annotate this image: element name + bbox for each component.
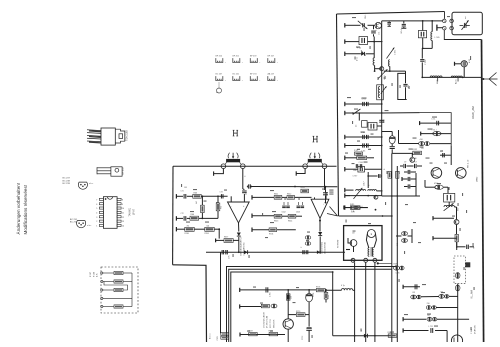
terminal stub9 <box>176 194 183 198</box>
resistor R-d <box>114 305 123 308</box>
svg-text:TDA 2160: TDA 2160 <box>126 130 129 141</box>
resistor R96 <box>269 331 278 336</box>
svg-text:BC 239: BC 239 <box>63 183 71 185</box>
label H1 <box>233 130 238 136</box>
capacitor C66 <box>353 164 362 172</box>
wire AM antenna rail <box>421 77 481 79</box>
capacitor C90 <box>266 287 272 297</box>
terminal stub12 <box>345 188 354 192</box>
wire right border <box>482 40 484 343</box>
text disclaimer <box>15 183 28 235</box>
terminal stub19 <box>403 328 447 342</box>
wire from Fi2 down <box>324 169 326 191</box>
terminal e <box>101 305 114 307</box>
trimmer C051 <box>387 48 397 72</box>
label FM transistors <box>468 159 470 168</box>
svg-text:R612: R612 <box>287 194 291 196</box>
wire lower left border <box>172 166 174 265</box>
capacitor C612 <box>282 202 290 214</box>
wire right rail196 <box>382 195 420 197</box>
svg-text:4k7: 4k7 <box>196 201 198 204</box>
resistor R63 <box>193 192 201 198</box>
transistor FM1 <box>431 168 442 179</box>
label KL AM <box>470 290 473 298</box>
svg-text:R 108: R 108 <box>94 272 96 277</box>
transistor GB2 <box>375 67 384 71</box>
component value labels (illegible) <box>181 16 475 338</box>
capacitor C-fm4 <box>400 162 422 169</box>
capacitor C185 <box>397 232 408 246</box>
svg-text:14: 14 <box>122 226 124 228</box>
wire mid rail <box>345 195 382 197</box>
svg-text:C9: C9 <box>404 162 406 164</box>
bus wires right <box>391 153 398 342</box>
labels T2 <box>70 219 92 227</box>
wire opamp1 out <box>238 223 240 232</box>
svg-text:AA 119: AA 119 <box>268 73 275 76</box>
transistor in module <box>346 233 357 253</box>
svg-text:C65: C65 <box>395 137 397 140</box>
svg-text:Änderungen vorbehalten!: Änderungen vorbehalten! <box>15 183 21 235</box>
svg-text:2 7k: 2 7k <box>351 211 355 213</box>
inductor L22 <box>368 190 383 200</box>
label C82 block <box>329 190 333 195</box>
stub under Fi2 <box>296 169 305 176</box>
diode D71 <box>237 233 241 254</box>
svg-text:TAA 661: TAA 661 <box>129 207 132 216</box>
resistor R-b <box>114 280 123 283</box>
terminal stub6 <box>345 135 382 139</box>
IC package TO-220 side view <box>87 128 125 145</box>
capacitor C64 <box>361 132 368 139</box>
lamp D60 <box>455 58 472 77</box>
svg-text:C72: C72 <box>181 213 184 215</box>
svg-text:R677: R677 <box>224 237 228 239</box>
svg-text:C612: C612 <box>282 212 286 214</box>
capacitor C180 <box>402 177 416 181</box>
pinout dotted line <box>216 82 222 94</box>
terminal stub2 <box>345 39 359 43</box>
terminal stub u2a <box>252 195 274 199</box>
svg-text:R704: R704 <box>269 234 273 236</box>
terminal stub u2c <box>252 228 269 232</box>
svg-text:d6: d6 <box>415 158 417 160</box>
transistor GM2 <box>392 153 415 162</box>
resistor R719 <box>324 290 330 303</box>
capacitor Cr3 <box>465 262 470 267</box>
wire bottom rail <box>332 271 392 337</box>
wire d <box>101 297 132 299</box>
svg-text:C94: C94 <box>291 296 293 299</box>
filter QF1 <box>368 123 382 131</box>
capacitor C72 <box>181 213 191 221</box>
transistor right big <box>451 335 462 346</box>
wire demod rail <box>206 251 345 253</box>
svg-text:R719: R719 <box>328 295 330 299</box>
svg-text:ZF 460 kHz AB: ZF 460 kHz AB <box>266 315 269 328</box>
box antenna input <box>452 12 482 34</box>
svg-text:BF 167: BF 167 <box>268 56 275 58</box>
capacitor C-oscout <box>403 84 410 99</box>
terminal stub16 <box>433 236 457 240</box>
svg-text:MISCHER: MISCHER <box>274 319 276 328</box>
resistor Rbus1 <box>384 168 391 178</box>
svg-text:#53: #53 <box>412 292 415 294</box>
resistor R136 <box>185 225 195 235</box>
svg-text:716: 716 <box>187 225 190 227</box>
capacitor C181 <box>404 184 416 188</box>
svg-text:C 506: C 506 <box>425 59 427 65</box>
svg-text:ST POST: ST POST <box>338 239 340 248</box>
svg-text:ZF AM 460: ZF AM 460 <box>474 325 477 334</box>
svg-text:R66: R66 <box>191 214 194 216</box>
svg-text:LP A7: LP A7 <box>133 208 136 215</box>
svg-text:C 917: C 917 <box>353 176 358 178</box>
svg-text:R65: R65 <box>221 206 223 209</box>
wire right185 <box>396 229 412 243</box>
label demodulator <box>240 236 246 256</box>
IF transformer Fi1 <box>221 153 245 169</box>
wire right main v <box>457 284 459 343</box>
svg-text:R 107: R 107 <box>90 272 92 277</box>
resistor R-bot <box>386 332 397 337</box>
wires dashed box <box>104 273 132 307</box>
resistor R90 <box>261 304 277 308</box>
capacitor C80 <box>247 184 250 188</box>
component stack bottom-left <box>217 333 229 341</box>
svg-text:BC 251: BC 251 <box>233 74 241 76</box>
svg-text:R615: R615 <box>301 187 305 189</box>
label H2 <box>313 136 318 142</box>
capacitor Cr2 <box>457 242 476 250</box>
wire y216 <box>339 215 392 217</box>
svg-text:C706: C706 <box>313 293 315 297</box>
resistor R185 <box>394 264 405 275</box>
resistor R95 <box>249 331 258 336</box>
svg-text:C917: C917 <box>364 181 366 186</box>
svg-text:BF 451: BF 451 <box>233 56 240 58</box>
IF transformer Fi2 <box>303 153 327 169</box>
electrolytic C706 <box>306 290 315 302</box>
resistor R65 <box>216 196 222 218</box>
terminal stub7 <box>345 143 382 147</box>
svg-text:BC 252: BC 252 <box>70 222 78 224</box>
svg-text:R713: R713 <box>296 311 300 313</box>
wire module border corner <box>173 265 207 342</box>
svg-text:8: 8 <box>122 200 123 202</box>
oval r1 <box>455 273 460 279</box>
wire top feed <box>382 20 443 22</box>
svg-text:R611: R611 <box>274 194 278 196</box>
inductor L503 <box>430 76 442 84</box>
terminal stub15 <box>433 216 454 220</box>
resistor R64 <box>196 196 204 218</box>
svg-text:11: 11 <box>122 213 124 215</box>
filter F2 <box>353 166 382 177</box>
svg-text:BC 238: BC 238 <box>63 180 71 182</box>
inductor L705 <box>341 285 355 290</box>
capacitor C-top <box>401 21 406 34</box>
diode D-bot <box>361 330 368 338</box>
dashed box <box>101 267 138 313</box>
svg-text:604: 604 <box>207 225 210 227</box>
svg-text:R144: R144 <box>357 154 362 156</box>
svg-text:R613: R613 <box>274 221 278 223</box>
wire row1 <box>201 195 227 197</box>
resistor Rbus2 <box>396 171 401 178</box>
svg-text:C61: C61 <box>184 187 187 189</box>
wire bc2 <box>240 304 262 308</box>
svg-text:R705: R705 <box>316 286 320 288</box>
electrolytic C-bot <box>302 328 312 342</box>
svg-text:1n5: 1n5 <box>378 32 380 35</box>
svg-text:C710/OSZILLATOR: C710/OSZILLATOR <box>263 311 266 328</box>
resistor R704 <box>269 228 296 236</box>
wire IF rail <box>173 165 337 167</box>
svg-text:4,7k: 4,7k <box>97 273 99 277</box>
transistor GB90 <box>283 319 293 329</box>
op-amp U2 <box>311 192 338 218</box>
capacitor C63 <box>379 120 385 123</box>
svg-text:C71: C71 <box>181 191 184 193</box>
wire right border upper <box>444 30 481 40</box>
terminal b <box>101 280 114 282</box>
capacitor C-179 <box>368 174 382 178</box>
capacitor C82 <box>323 187 328 204</box>
capacitor C-fm1 <box>420 119 452 126</box>
label block osc <box>263 311 276 328</box>
transistor package with tab <box>97 167 122 176</box>
svg-text:84 d: 84 d <box>401 30 403 34</box>
svg-text:ant: ant <box>464 16 467 19</box>
resistor R51 <box>354 150 363 155</box>
wire to Q osc <box>368 24 375 26</box>
wire C-bot up <box>308 315 310 327</box>
wire bias <box>214 228 220 238</box>
label package2 <box>123 167 125 175</box>
diode D76 <box>244 250 248 254</box>
svg-text:C185: C185 <box>396 273 400 275</box>
capacitor C613 <box>296 202 304 214</box>
wire top border <box>337 12 445 15</box>
connector circles <box>443 19 454 30</box>
svg-text:9: 9 <box>122 204 123 206</box>
svg-text:C75: C75 <box>229 256 231 259</box>
oval pair r4 <box>426 303 457 310</box>
osc trimmer arrows <box>378 69 387 94</box>
nested corner wires <box>227 267 397 343</box>
inductor L505 <box>423 21 441 49</box>
pinout grid row1 <box>216 56 279 64</box>
capacitor C-osc <box>371 25 380 36</box>
wire bc3 <box>286 290 292 319</box>
svg-text:R614: R614 <box>288 221 292 223</box>
svg-text:6: 6 <box>96 204 97 206</box>
filter box right <box>444 187 455 207</box>
wire upper left border <box>337 14 339 216</box>
wire osc down <box>377 71 384 100</box>
module box <box>344 226 382 261</box>
svg-text:BC 251: BC 251 <box>70 219 78 221</box>
capacitor C71 <box>181 187 193 199</box>
component pair K1 <box>399 139 452 150</box>
svg-text:Modifications réservées!: Modifications réservées! <box>23 185 28 235</box>
svg-text:R185: R185 <box>394 264 398 266</box>
vertical feed <box>367 172 370 188</box>
svg-text:C105: C105 <box>217 336 219 340</box>
terminal stub18 <box>403 317 469 321</box>
terminal stub11 <box>345 156 357 160</box>
variable inductor L21 <box>354 181 366 198</box>
svg-text:C 705: C 705 <box>270 292 272 297</box>
terminal stub5 <box>345 111 420 115</box>
svg-text:BC 237: BC 237 <box>63 178 71 180</box>
svg-text:FM 11 12: FM 11 12 <box>468 159 470 168</box>
svg-text:C712: C712 <box>302 336 304 340</box>
svg-text:C 051: C 051 <box>395 49 397 55</box>
svg-text:C7: C7 <box>415 162 417 164</box>
svg-text:2: 2 <box>96 221 97 223</box>
transistor pinout T1 <box>78 182 87 189</box>
capacitor C83 <box>301 236 311 248</box>
capacitor C73 <box>220 192 224 199</box>
svg-text:BF 459: BF 459 <box>123 167 125 175</box>
terminal stub10b <box>176 227 184 231</box>
crystal Q1 <box>418 21 426 49</box>
svg-text:R136: R136 <box>185 233 189 235</box>
terminal stub u2b <box>252 214 274 218</box>
label UKW AM <box>471 106 475 119</box>
wire opamp2 out <box>319 218 321 231</box>
labels DIP <box>129 207 136 216</box>
svg-text:R411: R411 <box>350 204 354 206</box>
svg-text:C73: C73 <box>220 192 223 194</box>
svg-text:5: 5 <box>96 208 97 210</box>
transistor right2 <box>454 220 459 235</box>
inductor L-osc <box>373 58 375 72</box>
capacitor C182 <box>404 170 416 174</box>
resistor R132 <box>413 149 422 160</box>
varistor RV1 <box>421 129 452 136</box>
diode D81 <box>318 232 322 253</box>
svg-text:e b c: e b c <box>89 183 93 185</box>
svg-text:13: 13 <box>122 221 124 223</box>
transistor GB1 <box>375 21 382 42</box>
filter F1 <box>357 37 383 58</box>
varicap D51 <box>357 51 375 62</box>
IC DIP package <box>96 197 124 229</box>
op-amp U1 <box>228 194 250 223</box>
terminal stub10 <box>176 216 183 220</box>
wire osc corner <box>398 73 407 99</box>
svg-text:C74: C74 <box>245 192 247 195</box>
terminal stub13 <box>345 193 350 197</box>
inductor L527 <box>451 76 462 84</box>
svg-text:R132: R132 <box>413 149 418 151</box>
wire bc1 <box>240 288 327 292</box>
oval pair r5 <box>427 315 437 321</box>
module output wires <box>355 262 375 342</box>
svg-text:C144: C144 <box>359 162 363 164</box>
terminal stub14 <box>345 205 352 209</box>
capacitor C506 <box>420 48 427 77</box>
svg-text:BF 459: BF 459 <box>250 56 257 58</box>
wire osc out <box>384 70 406 83</box>
antenna symbol in box <box>460 16 470 30</box>
svg-text:BF 194: BF 194 <box>250 74 257 76</box>
svg-text:#56: #56 <box>427 303 430 305</box>
resistor R677 <box>216 237 239 243</box>
svg-text:R717 C711: R717 C711 <box>270 319 272 328</box>
wire gb90 down <box>287 329 289 342</box>
trimmer right <box>444 203 460 219</box>
svg-text:C63: C63 <box>384 120 386 123</box>
resistor R706 <box>194 225 214 235</box>
svg-text:C66: C66 <box>353 170 356 172</box>
svg-text:C8: C8 <box>352 233 354 235</box>
svg-text:7: 7 <box>96 200 97 202</box>
label right c563 <box>471 325 477 334</box>
capacitor C61 <box>362 99 369 107</box>
svg-text:L 711: L 711 <box>429 326 433 328</box>
label stereo <box>322 241 327 254</box>
resistor R614 <box>282 214 302 222</box>
svg-text:10: 10 <box>122 208 124 210</box>
component LC1 <box>355 113 367 127</box>
wire bc bottom <box>240 333 285 337</box>
resistor pair R201 <box>357 154 374 164</box>
feedback diagonal <box>330 207 338 216</box>
svg-text:Antr. o: Antr. o <box>209 334 212 339</box>
vertical bus x382 <box>381 42 383 196</box>
capacitor C-fm3 <box>440 151 451 158</box>
svg-text:M37: M37 <box>458 208 460 212</box>
resistor R706b <box>288 302 309 317</box>
svg-text:R63: R63 <box>194 192 197 194</box>
svg-text:4: 4 <box>96 213 97 215</box>
motor symbol <box>366 230 376 248</box>
terminal stub17 <box>403 284 420 289</box>
svg-text:#57: #57 <box>427 315 430 317</box>
wire from Fi1 down <box>243 169 247 190</box>
transformer in module <box>368 247 374 257</box>
transistor FM2 <box>456 168 467 179</box>
label st post <box>338 239 340 248</box>
trimmer CB1 <box>358 14 368 29</box>
resistor R4700 <box>425 180 448 189</box>
svg-text:BC 237: BC 237 <box>216 74 224 76</box>
terminal stub3 <box>345 52 361 56</box>
resistor R615 <box>301 187 309 193</box>
capacitor C75 <box>222 250 230 259</box>
wire top right corner <box>444 12 446 19</box>
terminal stub4 <box>345 102 382 106</box>
svg-text:L 505: L 505 <box>435 37 441 39</box>
electrolytic C68 <box>382 132 397 154</box>
svg-text:KL_AM: KL_AM <box>470 290 473 298</box>
terminal stub1 <box>345 23 361 27</box>
resistor R613 <box>274 214 282 222</box>
wire fm join <box>398 130 400 144</box>
terminal stub11b <box>345 167 358 171</box>
capacitor C-top2 <box>387 21 391 26</box>
resistor R270 <box>344 204 367 214</box>
wire down left inner <box>220 252 222 333</box>
capacitor Cr6 <box>429 326 433 333</box>
svg-text:+5/0: +5/0 <box>419 139 423 141</box>
switch S1 <box>352 109 360 115</box>
resistor R611 <box>274 194 282 200</box>
